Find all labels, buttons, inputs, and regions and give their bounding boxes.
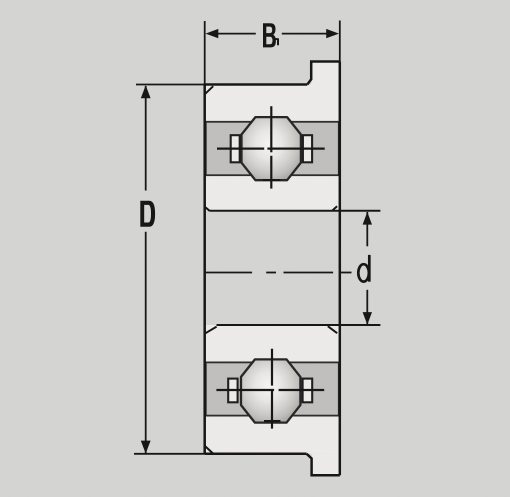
crosshair top ball horizontal (217, 148, 325, 150)
bore axis centerline (dash-dot) (204, 272, 352, 274)
label D (140, 201, 155, 227)
cage pocket top-left (231, 135, 240, 162)
outline: left edge (204, 21, 206, 85)
chamfer outer top-left (205, 86, 213, 94)
label B subscript 1 (275, 39, 278, 45)
cage pocket bottom-right (303, 379, 313, 403)
dimension D arrow up (141, 85, 151, 98)
cage pocket bottom-left (228, 379, 237, 403)
chamfer bore top-left (205, 207, 209, 211)
ball top (242, 117, 301, 180)
flange white fill bottom-right (312, 454, 340, 476)
label B (263, 23, 276, 47)
dimension B arrow left (206, 29, 219, 38)
outline: bottom edge + D extension (134, 453, 205, 455)
outline: top edge + D extension (136, 84, 205, 86)
tick below bottom ball (264, 420, 281, 422)
chamfer bore bottom-left (205, 327, 216, 334)
chamfer bore bottom-right (328, 326, 337, 333)
outline: right edge (339, 21, 341, 62)
tick below top ball (263, 179, 280, 181)
dimension d line (366, 212, 368, 324)
race band top (206, 122, 339, 175)
crosshair bottom ball horizontal (216, 389, 324, 391)
label d bowl (358, 264, 369, 281)
chamfer outer bottom-left (205, 446, 213, 454)
outline: bore top line + d extension (210, 210, 381, 212)
race band bottom (206, 362, 339, 415)
outline: bore bottom line + d extension (217, 324, 381, 326)
crosshair bottom ball vertical (271, 349, 273, 429)
ball bottom (241, 359, 300, 422)
cage pocket top-right (303, 135, 312, 162)
outline: top flange step (307, 62, 340, 85)
chamfer bore top-right (333, 206, 338, 210)
dimension B line (210, 33, 335, 35)
dimension d arrow up (363, 212, 372, 225)
dimension d arrow down (363, 312, 372, 325)
bearing body white fill (bottom section) (205, 325, 340, 454)
bearing body white fill (outer+inner rings, top section) (205, 85, 340, 211)
outline: bottom flange step (307, 454, 340, 476)
dimension D arrow down (141, 441, 151, 454)
flange white fill top-right (311, 62, 340, 86)
dimension D line (145, 86, 147, 454)
dimension B arrow right (326, 29, 339, 38)
crosshair top ball vertical (270, 106, 272, 188)
label d stem (368, 255, 371, 282)
